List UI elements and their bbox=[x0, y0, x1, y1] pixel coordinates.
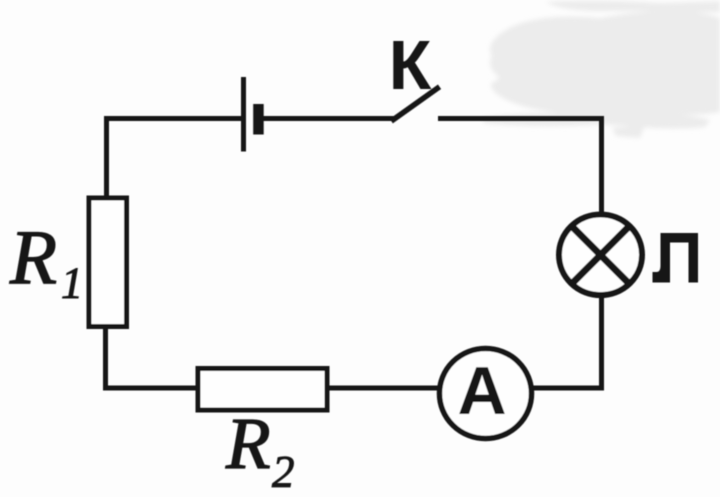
svg-text:А: А bbox=[457, 353, 506, 429]
svg-text:2: 2 bbox=[272, 447, 295, 497]
svg-text:1: 1 bbox=[61, 259, 83, 308]
svg-text:R: R bbox=[225, 403, 271, 484]
svg-text:К: К bbox=[389, 26, 432, 104]
svg-text:R: R bbox=[9, 214, 57, 300]
